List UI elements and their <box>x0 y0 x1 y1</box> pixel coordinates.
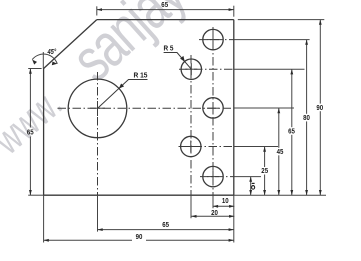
arrow leader R5 at circle edge <box>180 56 185 62</box>
arrow right 45 down <box>277 190 280 195</box>
svg-text:65: 65 <box>161 2 168 9</box>
arrow bottom 65 left <box>98 228 103 231</box>
plate outline: 45 deg chamfer <box>44 20 97 69</box>
plate outline: bottom edge <box>44 194 234 196</box>
center line vertical left hole column <box>190 55 192 195</box>
center line horizontal C5 <box>200 176 234 178</box>
dimension line bottom 20 <box>191 215 234 217</box>
center line horizontal large circle and C3 <box>58 107 234 109</box>
dimension line right 65 lower <box>291 135 293 195</box>
center marks (long dash through each hole center) <box>90 34 219 183</box>
center line horizontal C2 <box>179 68 234 70</box>
dimension line right 65 upper <box>291 69 293 127</box>
extension line top edge to right <box>238 19 324 21</box>
center line vertical right hole column <box>212 27 214 195</box>
svg-text:20: 20 <box>211 210 218 217</box>
extension and dimension lines (thin) <box>28 6 326 243</box>
hole C2 R5 <box>181 59 201 79</box>
arrowheads <box>29 8 322 242</box>
dimension line right 10 <box>250 177 252 196</box>
extension line right hole column below plate <box>212 195 214 208</box>
dimension line right 80 lower <box>306 121 308 195</box>
svg-text:80: 80 <box>303 115 310 122</box>
arrow right 80 up <box>305 40 308 45</box>
extension line right edge above plate <box>233 6 235 17</box>
center mark large circle <box>90 107 105 109</box>
center line horizontal C1 <box>199 39 234 41</box>
arrow right 80 down <box>305 190 308 195</box>
plate outline: left edge <box>43 69 45 196</box>
watermark <box>0 0 199 163</box>
arrow right 10 up <box>249 177 252 182</box>
svg-text:25: 25 <box>261 168 268 175</box>
arrow angle arc right end <box>52 62 58 66</box>
hole large R15 <box>68 79 127 138</box>
svg-text:65: 65 <box>162 222 169 229</box>
svg-text:45: 45 <box>277 149 284 156</box>
arrow right 25 down <box>263 190 266 195</box>
extension line left edge below plate <box>43 195 45 242</box>
svg-text:R 15: R 15 <box>134 72 148 79</box>
dimension line right 25 upper <box>264 147 266 168</box>
extension line large circle center below plate <box>97 195 99 231</box>
label right 10 rotated (drawn as shapes: digit 1 then 0 reading downward) <box>252 182 255 184</box>
extension line chamfer corner level left <box>28 68 41 70</box>
leader R5 <box>164 53 192 70</box>
arrow bottom 90 left <box>44 239 49 242</box>
dimension line right 90 upper <box>319 20 321 104</box>
extension line C1 level right <box>234 39 310 41</box>
dimension texts <box>27 2 323 241</box>
center mark C1 <box>207 39 219 41</box>
arrow right 65 down <box>290 190 293 195</box>
arrow leader R15 at circle edge <box>119 84 124 89</box>
svg-text:65: 65 <box>27 129 34 136</box>
extension line bottom edge left <box>28 194 43 196</box>
plate outline: top edge <box>97 19 234 21</box>
center mark C5 <box>207 176 219 178</box>
arrow bottom 65 right <box>229 228 234 231</box>
center mark C3 <box>207 107 219 109</box>
extension line C2 level right <box>234 68 305 70</box>
hole C1 R5 <box>203 29 223 49</box>
plate outline: right edge <box>233 20 235 196</box>
extension line C3 level right <box>234 107 294 109</box>
arrow right 10 down <box>249 190 252 195</box>
arrow right 25 up <box>263 147 266 152</box>
arrow right 90 up <box>319 20 322 25</box>
hole C4 R5 <box>181 136 201 156</box>
center mark C2 <box>185 68 197 70</box>
dimension line right 45 upper <box>278 108 280 148</box>
arrow bottom 90 right <box>229 239 234 242</box>
arrow bottom 20 left <box>191 215 196 218</box>
arrow right 65 up <box>290 69 293 74</box>
svg-text:45°: 45° <box>47 48 57 56</box>
extension line C5 level right <box>234 176 261 178</box>
dimension line bottom 90 left segment <box>44 239 132 241</box>
extension line C4 level right <box>234 146 278 148</box>
hole C5 R5 <box>203 166 223 186</box>
arrow left 65 down <box>29 190 32 195</box>
center line horizontal C4 <box>179 146 234 148</box>
dimension line right 25 lower <box>264 175 266 196</box>
svg-text:90: 90 <box>136 234 143 241</box>
extension line bottom edge right <box>234 194 326 196</box>
arrow right 90 down <box>319 190 322 195</box>
svg-text:90: 90 <box>316 105 323 112</box>
svg-text:65: 65 <box>288 128 295 135</box>
dimension line bottom 10 <box>213 205 234 207</box>
arrow top 65 left <box>97 8 102 11</box>
hole C3 R5 <box>203 98 223 118</box>
extension line top dim left tick <box>96 6 98 15</box>
dimension line left 65 lower segment <box>29 137 31 196</box>
dimension line left 65 upper segment <box>29 69 31 128</box>
dimension line top 65 <box>97 9 234 11</box>
leader R15 <box>98 80 148 109</box>
dimension line right 45 lower <box>278 155 280 195</box>
extension line right edge below plate <box>233 195 235 242</box>
dimension line right 80 upper <box>306 40 308 114</box>
dimension line bottom 65 <box>98 229 234 231</box>
arrow top 65 right <box>229 8 234 11</box>
dimension line right 90 lower <box>319 111 321 195</box>
angle arc 45 deg <box>32 54 57 64</box>
arrow angle arc left end <box>32 60 37 65</box>
svg-text:R 5: R 5 <box>164 45 174 52</box>
center line vertical large circle <box>97 72 99 195</box>
center mark C4 <box>185 146 197 148</box>
center lines (dash-dot) <box>58 27 234 195</box>
arrow bottom 10 left <box>213 205 218 208</box>
extension line left hole column below plate <box>190 195 192 218</box>
extension line left edge above corner <box>42 52 44 69</box>
arrow left 65 up <box>29 69 32 74</box>
arrow bottom 10 right <box>229 205 234 208</box>
dimension line bottom 90 right segment <box>146 239 234 241</box>
arrow bottom 20 right <box>229 215 234 218</box>
arrow right 45 up <box>277 108 280 113</box>
svg-text:10: 10 <box>222 198 229 205</box>
